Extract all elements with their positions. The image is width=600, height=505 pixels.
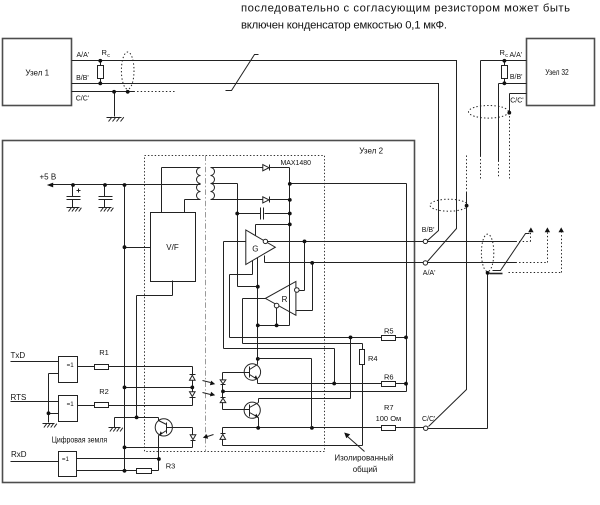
svg-text:R3: R3 <box>166 462 176 471</box>
svg-text:Узел 32: Узел 32 <box>545 68 569 77</box>
svg-text:R2: R2 <box>99 387 109 396</box>
svg-text:=1: =1 <box>67 362 75 369</box>
svg-text:G: G <box>252 244 258 253</box>
svg-text:A/A': A/A' <box>423 270 436 277</box>
svg-text:R1: R1 <box>99 348 109 357</box>
svg-text:Цифровая земля: Цифровая земля <box>52 435 107 444</box>
svg-text:RTS: RTS <box>11 393 27 402</box>
svg-text:V/F: V/F <box>166 243 179 252</box>
svg-text:=1: =1 <box>62 456 70 463</box>
svg-text:MAX1480: MAX1480 <box>281 158 312 167</box>
svg-text:R: R <box>282 295 288 304</box>
svg-text:B/B': B/B' <box>510 74 523 81</box>
svg-text:Узел 2: Узел 2 <box>359 147 383 156</box>
svg-text:=1: =1 <box>67 401 75 408</box>
svg-text:с: с <box>107 53 110 59</box>
svg-text:A/A': A/A' <box>77 52 90 59</box>
svg-text:R4: R4 <box>368 354 378 363</box>
svg-text:R6: R6 <box>384 373 394 382</box>
svg-text:R5: R5 <box>384 327 394 336</box>
svg-text:последовательно с согласующим: последовательно с согласующим резистором… <box>241 3 570 15</box>
svg-text:общий: общий <box>353 465 378 474</box>
svg-text:B/B': B/B' <box>422 227 435 234</box>
svg-text:с: с <box>505 53 508 59</box>
svg-text:A/A': A/A' <box>510 52 523 59</box>
svg-text:C/C': C/C' <box>76 96 89 103</box>
svg-text:С/С': С/С' <box>422 416 435 423</box>
svg-text:+5 В: +5 В <box>40 172 57 181</box>
svg-text:Изолированный: Изолированный <box>334 453 393 462</box>
svg-text:R7: R7 <box>384 403 394 412</box>
svg-text:B/B': B/B' <box>76 75 89 82</box>
svg-text:Узел 1: Узел 1 <box>25 68 49 77</box>
svg-text:RxD: RxD <box>11 450 27 459</box>
svg-text:С/С': С/С' <box>510 98 523 105</box>
svg-text:TxD: TxD <box>11 351 26 360</box>
svg-text:100 Ом: 100 Ом <box>376 414 402 423</box>
svg-text:включен конденсатор емкостью 0: включен конденсатор емкостью 0,1 мкФ. <box>241 20 447 32</box>
